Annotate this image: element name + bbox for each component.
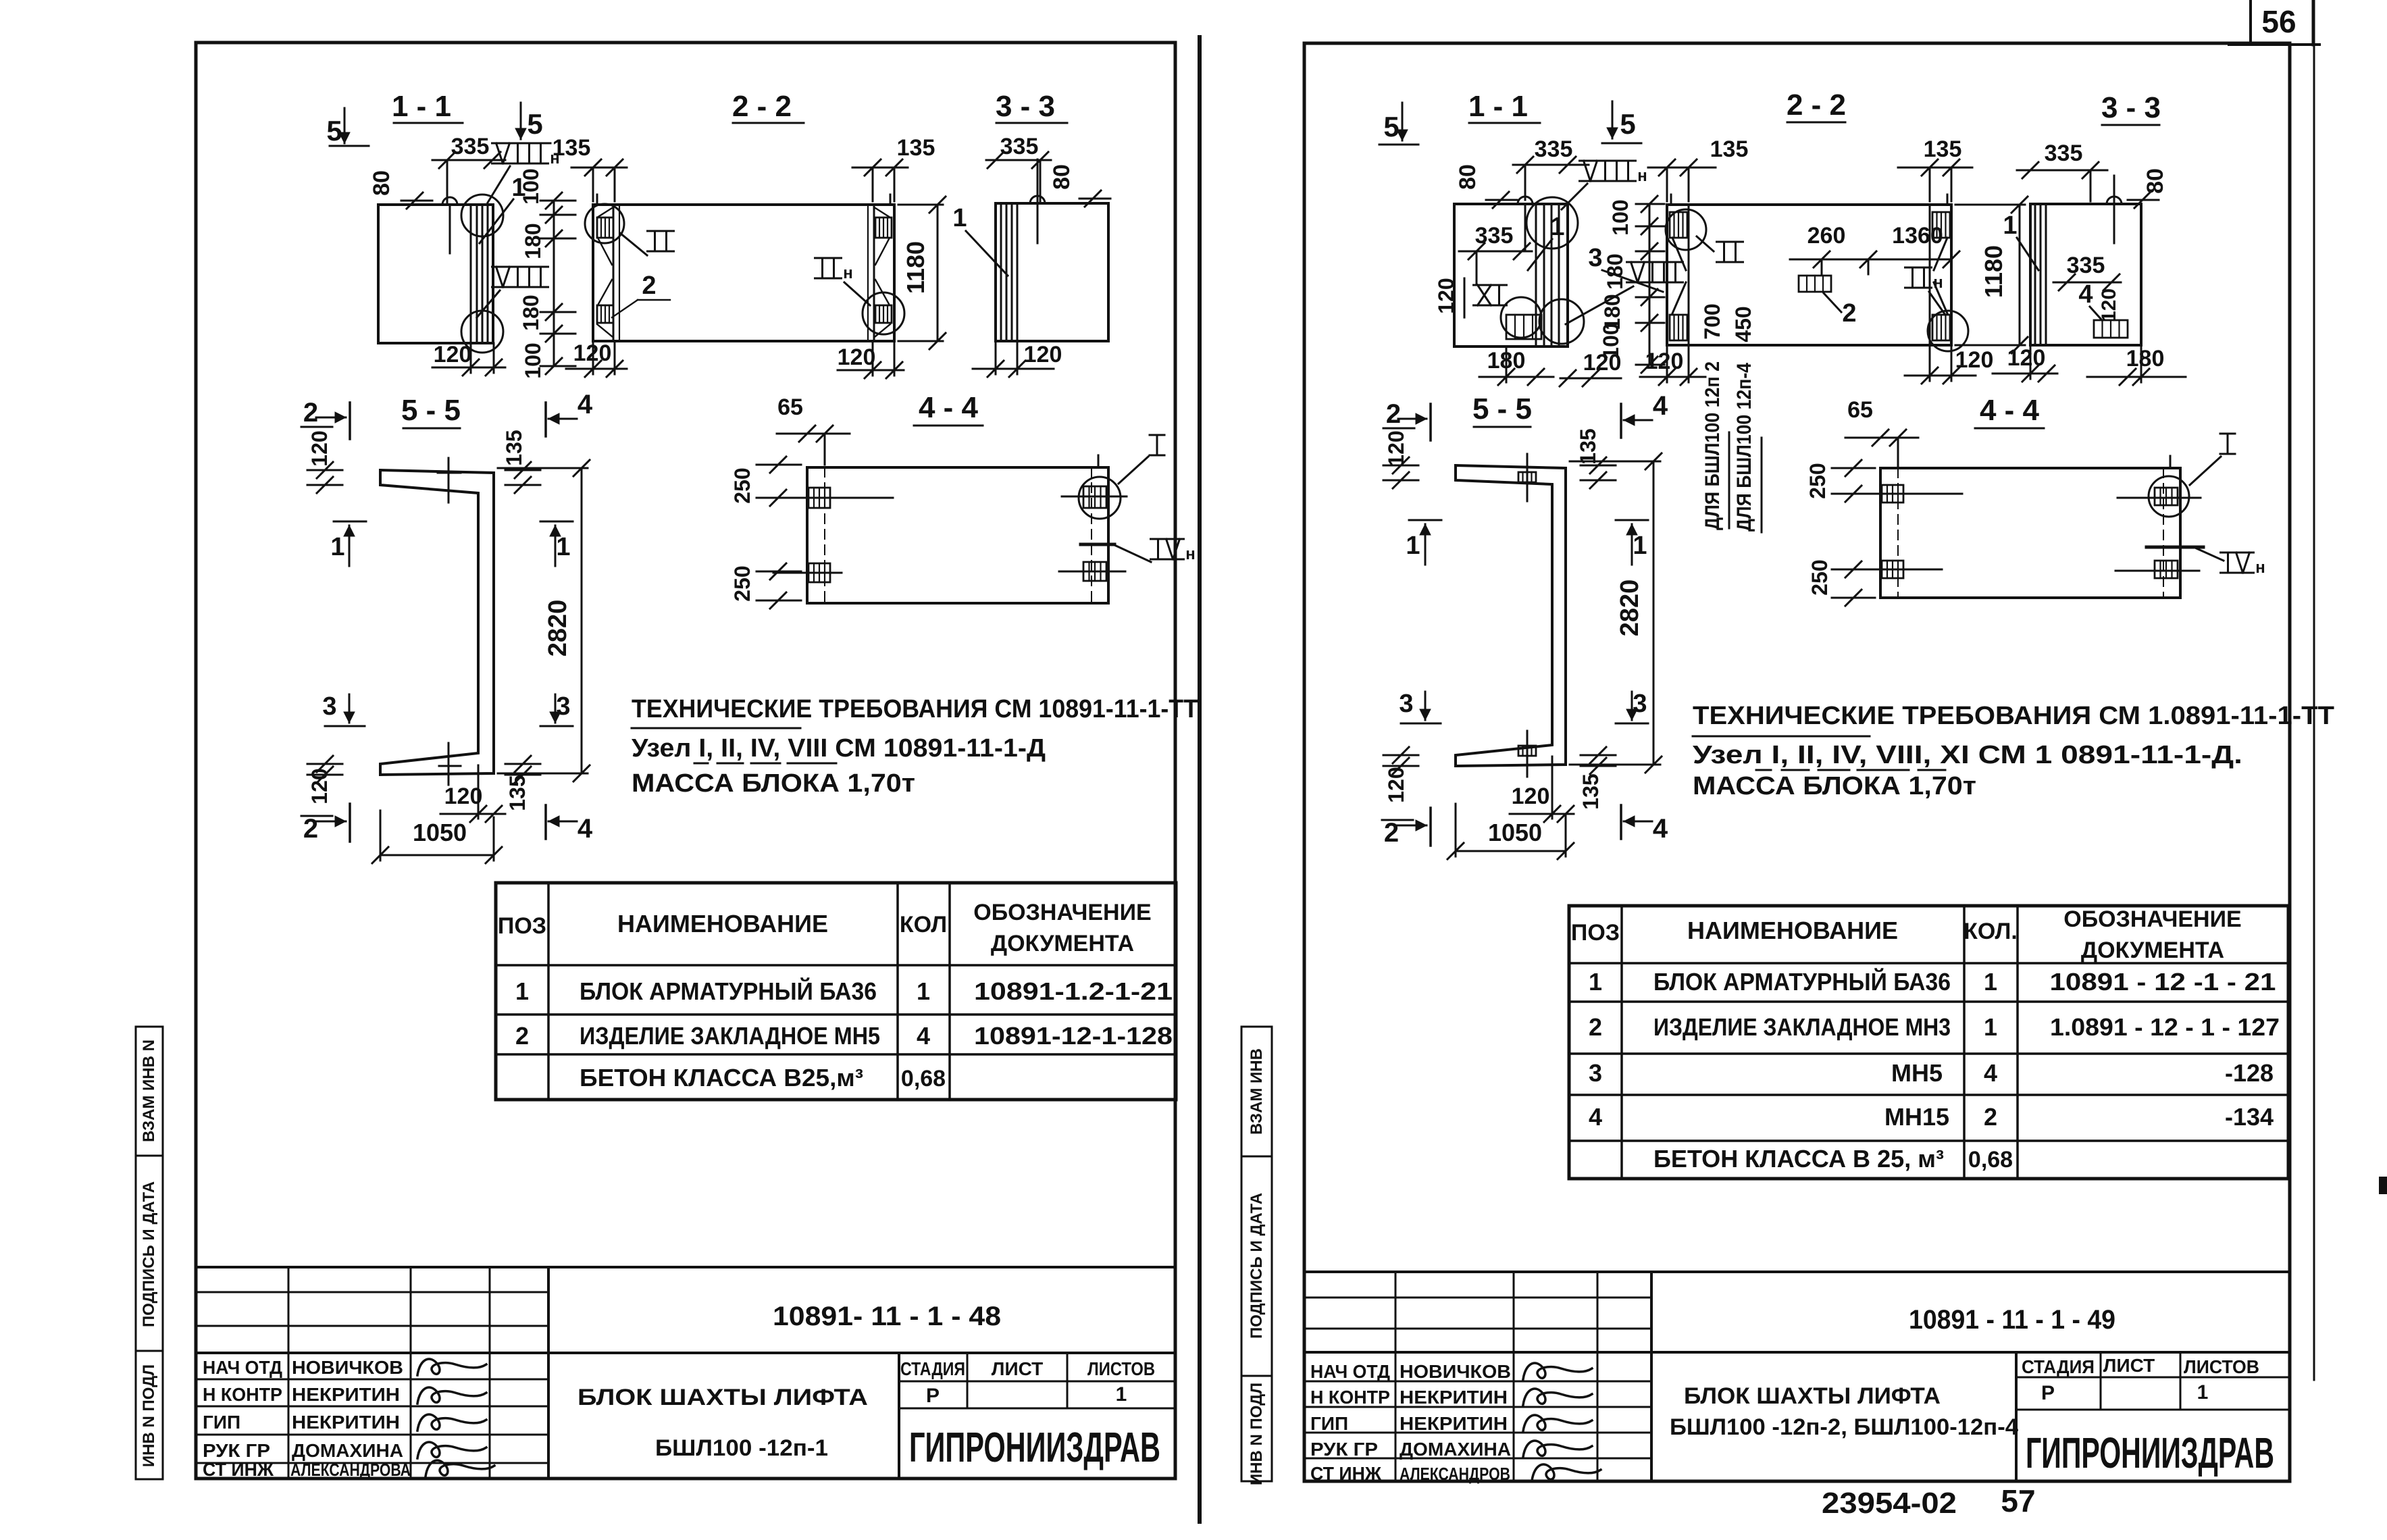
svg-text:КОЛ.: КОЛ. xyxy=(1963,919,2018,944)
svg-text:н: н xyxy=(1185,545,1196,563)
svg-text:ТЕХНИЧЕСКИЕ ТРЕБОВАНИЯ СМ 10: ТЕХНИЧЕСКИЕ ТРЕБОВАНИЯ СМ 10891-11-1-ТТ xyxy=(632,695,1198,723)
L 4-4 whisker top-right xyxy=(1098,455,1100,467)
R 1-1 lifting hook xyxy=(1518,197,1533,204)
svg-text:250: 250 xyxy=(730,467,754,503)
svg-text:НАИМЕНОВАНИЕ: НАИМЕНОВАНИЕ xyxy=(1687,917,1898,944)
svg-text:БШЛ100 -12п-2, БШЛ100-12п-4: БШЛ100 -12п-2, БШЛ100-12п-4 xyxy=(1670,1414,2018,1440)
svg-text:1: 1 xyxy=(1984,968,1997,996)
L 2-2 detail circle II-n bottom-right xyxy=(863,292,904,334)
svg-text:335: 335 xyxy=(1000,134,1039,159)
svg-text:2 - 2: 2 - 2 xyxy=(732,90,792,123)
R 3-3 dim 120 bottom-left xyxy=(1993,373,2057,375)
R cut marker down-5 xyxy=(1612,101,1614,138)
R 2-2 dim 120 below right wall xyxy=(1905,375,1976,377)
R title block upper narrow rows xyxy=(1304,1297,1651,1299)
svg-text:1050: 1050 xyxy=(1488,819,1542,846)
R 1-1 dim 120 bottom-right xyxy=(1560,378,1621,380)
svg-text:1: 1 xyxy=(2003,211,2017,240)
L stadia row lines xyxy=(899,1381,1175,1383)
svg-text:2: 2 xyxy=(303,814,318,844)
svg-text:4: 4 xyxy=(1589,1103,1602,1131)
svg-text:4 - 4: 4 - 4 xyxy=(1980,394,2040,427)
R 4-4 detail circle I xyxy=(2149,476,2189,517)
svg-text:57: 57 xyxy=(2001,1483,2035,1518)
R 5-5 cut marker 1 up right xyxy=(1616,519,1648,521)
scan blob artifact right edge xyxy=(2379,1177,2387,1194)
R 1-1 detail circle bottom-left XI xyxy=(1501,297,1541,338)
L 2-2 right wall xyxy=(873,205,875,341)
L 2-2 dim 120 below left wall xyxy=(566,368,627,370)
svg-text:Узел I, II, IV, VIII, XI СМ 1: Узел I, II, IV, VIII, XI СМ 1 0891-11-1-… xyxy=(1693,741,2242,769)
L 4-4 label IV-n xyxy=(1151,538,1184,540)
svg-text:1: 1 xyxy=(1406,532,1420,560)
svg-text:ДОКУМЕНТА: ДОКУМЕНТА xyxy=(2081,938,2224,963)
svg-text:135: 135 xyxy=(1924,136,1962,162)
L 5-5 flange tick top xyxy=(448,458,450,503)
svg-text:Н КОНТР: Н КОНТР xyxy=(203,1384,282,1405)
svg-text:80: 80 xyxy=(1455,164,1481,190)
R 2-2 block outline xyxy=(1667,205,1951,345)
L 1-1 wall reinforcement lines xyxy=(470,205,472,343)
svg-text:120: 120 xyxy=(444,784,483,809)
R title block row lines xyxy=(1304,1381,1651,1383)
svg-text:МАССА БЛОКА 1,70т: МАССА БЛОКА 1,70т xyxy=(1693,772,1976,800)
L 2-2 dim 135 right xyxy=(852,167,908,169)
svg-text:3: 3 xyxy=(322,692,336,721)
svg-text:2: 2 xyxy=(303,398,318,428)
svg-text:ОБОЗНАЧЕНИЕ: ОБОЗНАЧЕНИЕ xyxy=(973,900,1151,925)
svg-text:ГИП: ГИП xyxy=(1310,1413,1348,1434)
L 2-2 left wall xyxy=(613,205,615,341)
svg-text:3: 3 xyxy=(1588,244,1602,272)
svg-text:БЛОК АРМАТУРНЫЙ БА36: БЛОК АРМАТУРНЫЙ БА36 xyxy=(580,977,877,1005)
svg-text:120: 120 xyxy=(1583,350,1622,376)
R title block top line xyxy=(1304,1270,2288,1273)
L 5-5 cut marker 3 down right xyxy=(555,694,557,723)
svg-text:1: 1 xyxy=(1550,213,1564,241)
L 1-1 dim 335 xyxy=(432,159,505,161)
svg-text:450: 450 xyxy=(1731,306,1755,342)
svg-text:ЛИСТ: ЛИСТ xyxy=(2103,1355,2155,1376)
svg-text:ПОДПИСЬ И ДАТА: ПОДПИСЬ И ДАТА xyxy=(140,1181,158,1327)
svg-text:4 - 4: 4 - 4 xyxy=(919,391,979,424)
svg-text:1: 1 xyxy=(330,533,344,561)
R 2-2 middle embed xyxy=(1799,276,1831,292)
svg-text:335: 335 xyxy=(1535,136,1573,162)
R 1-1 label VIII xyxy=(1627,261,1683,263)
L 2-2 block outline xyxy=(593,205,894,341)
svg-text:5: 5 xyxy=(326,115,342,147)
svg-text:180: 180 xyxy=(521,223,545,259)
svg-text:120: 120 xyxy=(2007,345,2046,371)
R 3-3 embed bottom xyxy=(2094,320,2128,338)
svg-text:НОВИЧКОВ: НОВИЧКОВ xyxy=(1400,1361,1511,1382)
svg-text:НЕКРИТИН: НЕКРИТИН xyxy=(1400,1387,1508,1408)
L 4-4 dashed axis left xyxy=(824,467,825,603)
R 5-5 channel profile outline xyxy=(1456,465,1566,766)
svg-text:АЛЕКСАНДРОВА: АЛЕКСАНДРОВА xyxy=(290,1460,411,1480)
svg-text:1050: 1050 xyxy=(413,819,467,846)
R 1-1 dim chain right xyxy=(1649,204,1651,365)
R 3-3 wall reinforcement lines xyxy=(2034,204,2036,345)
svg-text:Р: Р xyxy=(2041,1382,2055,1404)
svg-text:10891 - 12 -1 - 21: 10891 - 12 -1 - 21 xyxy=(2050,968,2276,996)
svg-text:4: 4 xyxy=(917,1022,930,1050)
L 3-3 block outline xyxy=(996,203,1108,341)
L 4-4 embed centre lines xyxy=(782,497,893,499)
svg-text:1180: 1180 xyxy=(1980,245,2007,298)
svg-text:ИНВ N ПОДЛ: ИНВ N ПОДЛ xyxy=(1248,1383,1266,1485)
svg-text:ТЕХНИЧЕСКИЕ ТРЕБОВАНИЯ СМ 1.: ТЕХНИЧЕСКИЕ ТРЕБОВАНИЯ СМ 1.0891-11-1-ТТ xyxy=(1693,702,2334,730)
svg-text:1: 1 xyxy=(515,977,529,1005)
svg-text:5 - 5: 5 - 5 xyxy=(401,394,461,427)
L 4-4 embed top-right xyxy=(1083,486,1106,508)
svg-text:3: 3 xyxy=(1633,690,1647,718)
svg-text:10891- 11 - 1 - 48: 10891- 11 - 1 - 48 xyxy=(773,1302,1001,1331)
svg-text:4: 4 xyxy=(1653,814,1668,844)
svg-text:3: 3 xyxy=(1589,1059,1602,1087)
svg-text:РУК ГР: РУК ГР xyxy=(203,1440,270,1461)
svg-text:-128: -128 xyxy=(2225,1059,2274,1087)
svg-text:5: 5 xyxy=(527,108,542,140)
right sheet border frame xyxy=(1304,43,2290,1481)
svg-text:135: 135 xyxy=(553,135,591,161)
svg-text:1 - 1: 1 - 1 xyxy=(392,90,451,123)
svg-text:СТ ИНЖ: СТ ИНЖ xyxy=(1310,1463,1382,1484)
svg-text:80: 80 xyxy=(369,170,394,196)
R 4-4 embed bottom-left xyxy=(1882,561,1903,578)
svg-text:МН5: МН5 xyxy=(1891,1059,1943,1087)
svg-text:ЛИСТОВ: ЛИСТОВ xyxy=(1087,1358,1155,1379)
svg-text:56: 56 xyxy=(2261,4,2296,39)
R 2-2 left wall xyxy=(1688,205,1690,345)
R 2-2 dim 120 below left wall xyxy=(1640,376,1705,378)
svg-text:ВЗАМ ИНВ: ВЗАМ ИНВ xyxy=(1248,1048,1266,1135)
svg-text:10891-12-1-128: 10891-12-1-128 xyxy=(974,1022,1173,1050)
R 1-1 dim 335 middle with XI xyxy=(1459,251,1532,253)
svg-text:НЕКРИТИН: НЕКРИТИН xyxy=(292,1384,400,1405)
L 5-5 cut marker 4 top-right xyxy=(544,403,547,436)
L 3-3 dim 120 bottom xyxy=(973,368,1054,370)
svg-text:ЛИСТ: ЛИСТ xyxy=(992,1358,1043,1379)
L 2-2 label II-n xyxy=(815,257,842,259)
R 4-4 embed top-left xyxy=(1882,485,1903,503)
R 2-2 right wall xyxy=(1929,205,1931,345)
svg-text:1 - 1: 1 - 1 xyxy=(1468,90,1528,123)
svg-text:2: 2 xyxy=(1386,399,1401,429)
svg-text:4: 4 xyxy=(577,390,593,419)
svg-text:120: 120 xyxy=(1434,278,1458,313)
svg-text:120: 120 xyxy=(838,344,876,370)
svg-text:120: 120 xyxy=(1384,767,1408,802)
svg-text:Узел I, II, IV, VIII СМ 10891: Узел I, II, IV, VIII СМ 10891-11-1-Д xyxy=(632,734,1046,763)
R 1-1 embed XI bottom xyxy=(1506,315,1541,339)
R stadia row lines xyxy=(2016,1377,2288,1379)
svg-text:2: 2 xyxy=(1589,1013,1602,1041)
svg-text:ИЗДЕЛИЕ ЗАКЛАДНОЕ МН3: ИЗДЕЛИЕ ЗАКЛАДНОЕ МН3 xyxy=(1653,1013,1951,1041)
L 5-5 cut marker 4 bottom-right xyxy=(544,805,547,839)
svg-text:120: 120 xyxy=(1024,342,1062,367)
svg-text:2: 2 xyxy=(1842,299,1856,328)
svg-text:ДОМАХИНА: ДОМАХИНА xyxy=(292,1440,403,1461)
L 5-5 cut marker 1 up right xyxy=(540,521,573,523)
R 2-2 dims 260 and 1360 xyxy=(1790,259,1951,261)
L 4-4 detail circle I xyxy=(1079,477,1121,519)
R 2-2 detail circle bottom-right xyxy=(1928,311,1968,351)
svg-text:2 - 2: 2 - 2 xyxy=(1787,88,1846,122)
svg-text:БЛОК ШАХТЫ ЛИФТА: БЛОК ШАХТЫ ЛИФТА xyxy=(577,1385,868,1410)
svg-text:4: 4 xyxy=(577,814,593,844)
R 5-5 cut marker 1 up left xyxy=(1409,519,1441,521)
svg-text:МАССА БЛОКА 1,70т: МАССА БЛОКА 1,70т xyxy=(632,769,915,798)
svg-text:0,68: 0,68 xyxy=(1968,1147,2013,1173)
L 4-4 weld mark IV-n xyxy=(1081,543,1114,546)
svg-text:БЛОК АРМАТУРНЫЙ БА36: БЛОК АРМАТУРНЫЙ БА36 xyxy=(1653,967,1951,996)
svg-text:250: 250 xyxy=(1807,559,1832,595)
svg-text:НЕКРИТИН: НЕКРИТИН xyxy=(1400,1413,1508,1434)
R 4-4 whisker top-right xyxy=(2170,456,2172,468)
svg-text:ГИПРОНИИЗДРАВ: ГИПРОНИИЗДРАВ xyxy=(909,1424,1160,1471)
outer right margin line xyxy=(2313,45,2315,1380)
svg-text:н: н xyxy=(843,264,853,282)
svg-text:10891 - 11 - 1 - 49: 10891 - 11 - 1 - 49 xyxy=(1909,1305,2115,1335)
svg-text:4: 4 xyxy=(1984,1059,1997,1087)
R 5-5 cut marker 4 top-right xyxy=(1620,404,1622,438)
svg-text:335: 335 xyxy=(1475,223,1514,249)
svg-text:3: 3 xyxy=(556,692,570,721)
svg-text:120: 120 xyxy=(1955,347,1994,373)
svg-text:ОБОЗНАЧЕНИЕ: ОБОЗНАЧЕНИЕ xyxy=(2063,906,2241,932)
svg-text:120: 120 xyxy=(1645,349,1684,374)
R 5-5 cut marker 4 bottom-right xyxy=(1620,805,1622,839)
svg-text:БЕТОН КЛАССА В25,м³: БЕТОН КЛАССА В25,м³ xyxy=(580,1064,863,1092)
svg-text:СТАДИЯ: СТАДИЯ xyxy=(900,1358,965,1379)
svg-text:100: 100 xyxy=(1608,199,1633,235)
L 1-1 label VIII xyxy=(492,266,548,268)
svg-text:65: 65 xyxy=(777,394,803,420)
R 4-4 block outline xyxy=(1880,468,2180,598)
R 4-4 embed bottom-right xyxy=(2155,561,2178,578)
svg-text:3 - 3: 3 - 3 xyxy=(996,90,1055,123)
L 4-4 embed bottom-left xyxy=(808,563,830,582)
svg-text:Н КОНТР: Н КОНТР xyxy=(1310,1387,1390,1408)
svg-text:3 - 3: 3 - 3 xyxy=(2101,91,2161,124)
svg-text:НОВИЧКОВ: НОВИЧКОВ xyxy=(292,1357,403,1378)
svg-text:100: 100 xyxy=(521,342,545,378)
svg-text:100: 100 xyxy=(519,168,543,204)
R 2-2 dim 135 right xyxy=(1898,167,1972,169)
L sidebar xyxy=(136,1027,163,1479)
svg-text:1: 1 xyxy=(2197,1381,2209,1404)
svg-text:120: 120 xyxy=(434,342,472,367)
svg-text:БШЛ100 -12п-1: БШЛ100 -12п-1 xyxy=(655,1435,828,1461)
svg-text:135: 135 xyxy=(1578,773,1603,809)
R title block main line xyxy=(1304,1351,2288,1354)
svg-text:700: 700 xyxy=(1700,303,1724,339)
L 4-4 label I xyxy=(1150,434,1164,436)
svg-text:1.0891 - 12 - 1 - 127: 1.0891 - 12 - 1 - 127 xyxy=(2050,1013,2280,1041)
R 1-1 label VIII-n xyxy=(1580,160,1636,162)
svg-text:КОЛ: КОЛ xyxy=(900,912,947,938)
L title block main line xyxy=(198,1352,1175,1354)
R 3-3 dim 180 bottom-right xyxy=(2087,376,2186,378)
svg-text:ИЗДЕЛИЕ ЗАКЛАДНОЕ МН5: ИЗДЕЛИЕ ЗАКЛАДНОЕ МН5 xyxy=(580,1022,880,1050)
svg-text:ВЗАМ ИНВ N: ВЗАМ ИНВ N xyxy=(140,1039,158,1142)
svg-text:РУК ГР: РУК ГР xyxy=(1310,1439,1378,1460)
R 3-3 block outline xyxy=(2030,204,2141,345)
svg-text:180: 180 xyxy=(1603,253,1627,289)
svg-text:БЕТОН КЛАССА В 25, м³: БЕТОН КЛАССА В 25, м³ xyxy=(1653,1145,1944,1173)
L signatures xyxy=(417,1359,486,1375)
svg-text:180: 180 xyxy=(519,294,543,330)
svg-text:250: 250 xyxy=(730,565,754,601)
svg-text:23954-02: 23954-02 xyxy=(1822,1487,1957,1520)
svg-text:-134: -134 xyxy=(2225,1103,2274,1131)
R 4-4 weld mark IV-n xyxy=(2147,546,2203,549)
svg-text:335: 335 xyxy=(2067,253,2105,278)
svg-text:135: 135 xyxy=(897,135,935,161)
R 5-5 embed top flange xyxy=(1518,472,1536,482)
svg-text:СТАДИЯ: СТАДИЯ xyxy=(2022,1356,2095,1377)
R 4-4 embed top-right xyxy=(2155,488,2178,505)
svg-text:120: 120 xyxy=(307,768,332,804)
svg-text:ДОКУМЕНТА: ДОКУМЕНТА xyxy=(991,931,1134,956)
R 1-1 wall reinforcement lines xyxy=(1535,204,1537,346)
svg-text:3: 3 xyxy=(1399,690,1413,718)
svg-text:ДЛЯ БШЛ100 12п-4: ДЛЯ БШЛ100 12п-4 xyxy=(1733,363,1755,532)
R 4-4 embed centre lines xyxy=(1854,493,1962,495)
R sidebar xyxy=(1241,1027,1272,1481)
svg-text:260: 260 xyxy=(1807,223,1846,249)
R 1-1 block outline xyxy=(1454,204,1568,346)
L 4-4 dashed axis right xyxy=(1091,467,1092,603)
svg-text:4: 4 xyxy=(2078,280,2093,309)
L 3-3 wall reinforcement lines xyxy=(1000,203,1002,341)
svg-text:НЕКРИТИН: НЕКРИТИН xyxy=(292,1412,400,1433)
svg-text:2: 2 xyxy=(1384,818,1399,848)
svg-text:Р: Р xyxy=(926,1385,940,1407)
svg-text:10891-1.2-1-21: 10891-1.2-1-21 xyxy=(974,977,1173,1005)
R 5-5 dim 2820 xyxy=(1653,461,1655,765)
L 5-5 channel profile outline xyxy=(380,470,494,775)
svg-text:ПОЗ: ПОЗ xyxy=(1571,920,1620,946)
svg-text:2820: 2820 xyxy=(544,600,572,657)
svg-text:н: н xyxy=(2255,559,2265,577)
svg-text:65: 65 xyxy=(1847,397,1873,423)
L dim chain 100-180-180-100 xyxy=(553,201,555,366)
svg-text:1: 1 xyxy=(556,533,570,561)
svg-text:ДЛЯ БШЛ100 12п 2: ДЛЯ БШЛ100 12п 2 xyxy=(1701,361,1724,530)
svg-text:НАЧ ОТД: НАЧ ОТД xyxy=(203,1357,282,1378)
page number 56 box top right xyxy=(2249,0,2252,45)
R title block verticals xyxy=(1395,1272,1397,1481)
L 4-4 block outline xyxy=(807,467,1108,603)
svg-text:1: 1 xyxy=(1984,1013,1997,1041)
L 1-1 label VIII-n xyxy=(492,143,548,145)
svg-text:2: 2 xyxy=(1984,1103,1997,1131)
R parts table frame xyxy=(1569,906,2288,1179)
L 1-1 detail circle VIII-n top xyxy=(461,195,503,236)
R 3-3 dim 335 top xyxy=(2017,170,2107,172)
svg-text:2820: 2820 xyxy=(1616,580,1644,637)
svg-text:5: 5 xyxy=(1383,111,1399,143)
svg-text:2: 2 xyxy=(515,1022,529,1050)
svg-text:1: 1 xyxy=(952,204,967,232)
svg-text:1: 1 xyxy=(1116,1383,1127,1406)
svg-text:135: 135 xyxy=(502,430,526,465)
R 4-4 label I xyxy=(2220,433,2235,435)
R signatures xyxy=(1523,1363,1592,1379)
svg-text:АЛЕКСАНДРОВ: АЛЕКСАНДРОВ xyxy=(1400,1464,1510,1484)
svg-text:1: 1 xyxy=(917,977,930,1005)
svg-text:НАИМЕНОВАНИЕ: НАИМЕНОВАНИЕ xyxy=(617,910,828,938)
R 3-3 lifting hook xyxy=(2107,197,2122,204)
R 2-2 label II-n xyxy=(1905,267,1932,269)
L 5-5 dim 2820 xyxy=(581,468,583,773)
svg-text:120: 120 xyxy=(573,340,612,366)
svg-text:250: 250 xyxy=(1805,463,1830,498)
R 1-1 detail circle top xyxy=(1526,197,1578,249)
sheet divider line between scanned pages xyxy=(1198,37,1202,1522)
R 1-1 dim 180 bottom-left xyxy=(1479,376,1554,378)
L parts table frame xyxy=(496,883,1176,1100)
L 2-2 dim 135 left xyxy=(571,167,627,169)
R 2-2 label II xyxy=(1717,241,1743,243)
svg-text:1180: 1180 xyxy=(902,241,929,294)
L 4-4 embed bottom-right xyxy=(1083,562,1106,581)
L title block row lines xyxy=(198,1379,548,1381)
svg-text:БЛОК ШАХТЫ ЛИФТА: БЛОК ШАХТЫ ЛИФТА xyxy=(1684,1383,1941,1409)
L 5-5 cut marker 1 up left xyxy=(334,521,366,523)
svg-text:ДОМАХИНА: ДОМАХИНА xyxy=(1400,1439,1511,1460)
svg-text:ГИП: ГИП xyxy=(203,1412,240,1433)
R 2-2 dim 135 left xyxy=(1648,167,1716,169)
svg-text:335: 335 xyxy=(2045,140,2083,166)
svg-text:ЛИСТОВ: ЛИСТОВ xyxy=(2184,1356,2259,1377)
svg-text:МН15: МН15 xyxy=(1884,1103,1949,1131)
L 1-1 detail circle VIII bottom xyxy=(461,311,503,353)
R 2-2 dim 1180 xyxy=(2019,205,2021,345)
L 2-2 detail circle II top-left xyxy=(585,204,624,243)
svg-text:120: 120 xyxy=(2098,288,2120,322)
L title block verticals xyxy=(288,1267,290,1479)
svg-text:135: 135 xyxy=(1576,428,1600,464)
L 4-4 embed top-left xyxy=(808,488,830,508)
svg-text:н: н xyxy=(1637,167,1647,185)
L 2-2 dim 1180 xyxy=(937,205,939,341)
L 1-1 dim 120 bottom xyxy=(432,367,505,369)
svg-text:2: 2 xyxy=(642,272,656,300)
svg-text:1360: 1360 xyxy=(1892,223,1943,249)
L 1-1 concrete block outline xyxy=(378,205,493,343)
svg-text:180: 180 xyxy=(2126,346,2165,371)
L 3-3 dim 335 xyxy=(986,159,1051,161)
L 3-3 lifting hook xyxy=(1030,196,1045,203)
R 4-4 label IV-n xyxy=(2221,552,2254,554)
left sheet border frame xyxy=(196,43,1175,1479)
svg-text:СТ ИНЖ: СТ ИНЖ xyxy=(203,1459,274,1480)
L 5-5 flange tick bottom xyxy=(448,743,450,785)
svg-text:5 - 5: 5 - 5 xyxy=(1472,392,1532,426)
L 2-2 label II xyxy=(648,230,674,232)
svg-text:80: 80 xyxy=(1049,164,1075,190)
R 2-2 detail circle top-left xyxy=(1666,209,1706,250)
svg-text:ПОДПИСЬ И ДАТА: ПОДПИСЬ И ДАТА xyxy=(1248,1193,1266,1339)
L title block top line xyxy=(198,1266,1175,1268)
svg-text:ГИПРОНИИЗДРАВ: ГИПРОНИИЗДРАВ xyxy=(2026,1429,2274,1477)
svg-text:4: 4 xyxy=(1653,391,1668,421)
svg-text:5: 5 xyxy=(1620,108,1635,140)
